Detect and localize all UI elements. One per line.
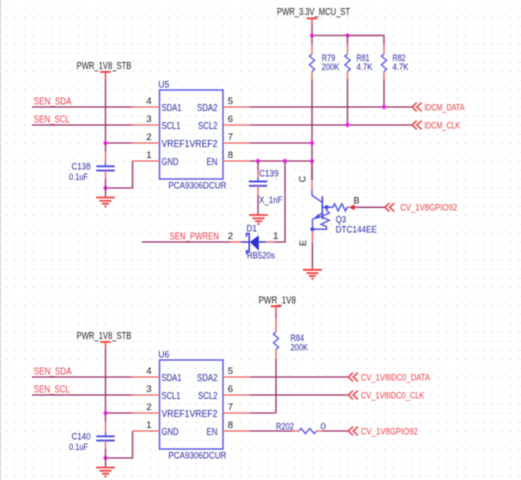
svg-text:D1: D1	[247, 224, 258, 235]
port CV_1V8IDC0_DATA	[348, 373, 358, 382]
svg-text:4: 4	[146, 366, 151, 377]
power symbol PWR_3.3V_MCU_ST	[307, 18, 318, 25]
wire SEN_SDA	[32, 106, 132, 108]
wire EN net	[250, 160, 312, 162]
svg-text:C139: C139	[259, 169, 279, 180]
svg-text:4: 4	[146, 96, 151, 107]
svg-text:SDA2: SDA2	[197, 103, 218, 114]
svg-text:VREF2: VREF2	[190, 139, 218, 150]
svg-text:U6: U6	[158, 350, 169, 361]
pin 3 of U6 (SCL1)	[132, 394, 160, 396]
node junction VREF2/R79	[310, 141, 314, 145]
svg-text:PWR_1V8_STB: PWR_1V8_STB	[77, 331, 132, 342]
pin 2 of U5 (VREF1)	[132, 142, 160, 144]
svg-text:EN: EN	[207, 427, 218, 438]
node junction EN/D1	[283, 159, 287, 163]
capacitor C138	[105, 143, 107, 152]
wire R202 to port	[323, 430, 349, 432]
svg-text:200K: 200K	[322, 62, 340, 73]
diode D1 RB520s	[241, 233, 266, 254]
wire U6 GND pin to C140	[106, 431, 133, 458]
pin 1 of U5 (GND)	[133, 160, 160, 162]
svg-text:7: 7	[228, 402, 233, 413]
svg-text:X_1nF: X_1nF	[259, 195, 283, 206]
node junction VREF1/PWR (U6)	[103, 411, 107, 415]
base arrow of Q3	[349, 205, 355, 211]
wire SEN_SCL	[32, 124, 132, 126]
svg-text:2: 2	[146, 402, 151, 413]
svg-text:SDA2: SDA2	[197, 373, 218, 384]
svg-text:4.7K: 4.7K	[393, 62, 410, 73]
wire EN (U6) to R202	[250, 430, 292, 432]
svg-text:DTC144EE: DTC144EE	[336, 224, 377, 235]
svg-text:EN: EN	[207, 157, 218, 168]
svg-text:B: B	[354, 196, 360, 206]
wire Q3 base to port	[355, 206, 385, 208]
svg-text:VREF1: VREF1	[162, 139, 190, 150]
svg-text:2: 2	[228, 231, 233, 242]
svg-text:1: 1	[146, 150, 151, 161]
op-amp U6 body (PCA9306DCUR)	[160, 360, 224, 449]
ground below C140	[96, 468, 115, 478]
pin 4 of U6 (SDA1)	[132, 376, 160, 378]
wire VREF1 to power rail (U6)	[106, 412, 133, 414]
op-amp U5 body (PCA9306DCUR)	[160, 90, 224, 179]
pin 1 of D1	[266, 241, 274, 243]
svg-text:6: 6	[228, 384, 233, 395]
wire Q3 emitter to ground	[311, 243, 313, 270]
svg-text:SEN_SCL: SEN_SCL	[34, 385, 70, 396]
svg-text:3: 3	[146, 114, 151, 125]
capacitor C140	[105, 413, 107, 422]
wire U5 GND pin to C138	[106, 161, 133, 188]
pin 8 of U5 (EN)	[223, 160, 250, 162]
wire SEN_PWREN to D1	[142, 241, 230, 243]
svg-text:4.7K: 4.7K	[357, 62, 374, 73]
svg-text:SCL2: SCL2	[198, 391, 218, 402]
svg-text:5: 5	[228, 96, 233, 107]
wire VREF1 to power rail	[106, 142, 133, 144]
svg-text:SCL1: SCL1	[162, 121, 181, 132]
pin 6 of U6 (SCL2)	[223, 394, 250, 396]
node junction VREF1/PWR_1V8_STB	[103, 141, 107, 145]
resistor R81	[347, 36, 349, 45]
svg-text:U5: U5	[158, 80, 169, 91]
svg-text:C: C	[298, 175, 308, 182]
svg-text:PWR_1V8_STB: PWR_1V8_STB	[77, 61, 132, 72]
node junction C138/GND net	[103, 186, 107, 190]
port CV_1V8GPIO92 (bottom)	[348, 427, 358, 436]
ground below C139	[249, 215, 268, 225]
svg-text:SDA1: SDA1	[162, 373, 182, 384]
wire SEN_SCL (bottom)	[32, 394, 132, 396]
wire SCL2 (U6) to port	[250, 394, 348, 396]
node junction R82/SDA2	[382, 105, 386, 109]
wire VREF2 to R79 column	[250, 142, 312, 144]
transistor Q3 DTC144EE	[312, 190, 349, 231]
pin 1 of U6 (GND)	[133, 430, 160, 432]
svg-text:R202: R202	[276, 422, 294, 433]
pin 8 of U6 (EN)	[223, 430, 250, 432]
svg-text:IDCM_CLK: IDCM_CLK	[424, 120, 460, 131]
ground below Q3	[303, 270, 322, 280]
svg-text:8: 8	[228, 150, 233, 161]
ground below C138	[96, 198, 115, 208]
port IDCM_DATA	[412, 103, 422, 112]
wire SDA2 (U6) to port	[250, 376, 348, 378]
wire SCL2 to IDCM_CLK	[250, 124, 412, 126]
port CV_1V8GPIO92 (Q3 base)	[385, 203, 395, 212]
wire D1 to EN net	[274, 161, 285, 242]
collector pin of Q3	[311, 180, 313, 190]
svg-text:GND: GND	[162, 157, 179, 168]
capacitor C139	[257, 161, 259, 171]
svg-text:PCA9306DCUR: PCA9306DCUR	[168, 181, 226, 192]
svg-text:5: 5	[228, 366, 233, 377]
svg-text:CV_1V8GPIO92: CV_1V8GPIO92	[361, 426, 418, 437]
svg-text:CV_1V8IDC0_CLK: CV_1V8IDC0_CLK	[361, 391, 425, 402]
node junction bus/R79	[310, 33, 314, 37]
svg-text:SEN_SCL: SEN_SCL	[34, 115, 70, 126]
power symbol PWR_1V8	[271, 306, 282, 313]
port CV_1V8IDC0_CLK	[348, 391, 358, 400]
svg-text:8: 8	[228, 420, 233, 431]
resistor R202	[292, 430, 299, 432]
resistor R79	[311, 36, 313, 45]
port IDCM_CLK	[412, 121, 422, 130]
pin 7 of U5 (VREF2)	[223, 142, 250, 144]
svg-text:IDCM_DATA: IDCM_DATA	[424, 102, 465, 113]
svg-text:CV_1V8GPIO92: CV_1V8GPIO92	[400, 203, 457, 214]
power symbol PWR_1V8_STB (bottom)	[100, 342, 111, 349]
wire EN to Q3 collector	[311, 161, 313, 180]
svg-text:6: 6	[228, 114, 233, 125]
wire PWR_1V8_STB to VREF1 (U6)	[105, 349, 107, 413]
wire SEN_SDA (bottom)	[32, 376, 132, 378]
pin 3 of U5 (SCL1)	[132, 124, 160, 126]
svg-text:2: 2	[146, 132, 151, 143]
emitter pin of Q3	[311, 231, 313, 243]
node junction C140/GND net	[103, 456, 107, 460]
svg-text:GND: GND	[162, 427, 179, 438]
svg-text:PWR_1V8: PWR_1V8	[259, 296, 297, 307]
svg-text:PCA9306DCUR: PCA9306DCUR	[168, 451, 226, 462]
svg-text:PWR_3.3V_MCU_ST: PWR_3.3V_MCU_ST	[277, 7, 350, 18]
svg-text:RB520s: RB520s	[247, 251, 275, 262]
wire SDA2 to IDCM_DATA	[250, 106, 412, 108]
node junction bus/R81	[345, 33, 349, 37]
wire power to resistor bus	[311, 25, 313, 35]
svg-text:CV_1V8IDC0_DATA: CV_1V8IDC0_DATA	[361, 373, 431, 384]
wire PWR_1V8_STB to VREF1	[105, 79, 107, 143]
resistor R84	[275, 313, 277, 318]
svg-text:E: E	[298, 240, 308, 246]
node junction EN/R79/Q3	[310, 159, 314, 163]
svg-text:SEN_SDA: SEN_SDA	[34, 97, 72, 108]
power symbol PWR_1V8_STB (top)	[100, 72, 111, 79]
svg-text:SCL1: SCL1	[162, 391, 181, 402]
svg-text:VREF2: VREF2	[190, 409, 218, 420]
svg-text:0.1uF: 0.1uF	[69, 172, 88, 183]
svg-text:VREF1: VREF1	[162, 409, 190, 420]
pin 7 of U6 (VREF2)	[223, 412, 250, 414]
svg-text:3: 3	[146, 384, 151, 395]
svg-text:1: 1	[146, 420, 151, 431]
svg-text:SEN_SDA: SEN_SDA	[34, 367, 72, 378]
svg-text:SCL2: SCL2	[198, 121, 218, 132]
svg-text:0.1uF: 0.1uF	[69, 442, 88, 453]
svg-text:200K: 200K	[291, 343, 309, 354]
node junction R81/SCL2	[345, 123, 349, 127]
wire resistor top bus	[312, 35, 384, 37]
svg-text:SDA1: SDA1	[162, 103, 182, 114]
wire VREF2 (U6) to R84	[250, 412, 276, 414]
svg-text:1: 1	[273, 231, 278, 242]
pin 6 of U5 (SCL2)	[223, 124, 250, 126]
svg-text:SEN_PWREN: SEN_PWREN	[170, 232, 220, 243]
svg-text:7: 7	[228, 132, 233, 143]
pin 5 of U5 (SDA2)	[223, 106, 250, 108]
pin 5 of U6 (SDA2)	[223, 376, 250, 378]
pin 2 of D1	[230, 241, 241, 243]
pin 4 of U5 (SDA1)	[132, 106, 160, 108]
resistor R82	[348, 35, 385, 37]
pin 2 of U6 (VREF1)	[132, 412, 160, 414]
node junction EN/C139	[256, 159, 260, 163]
